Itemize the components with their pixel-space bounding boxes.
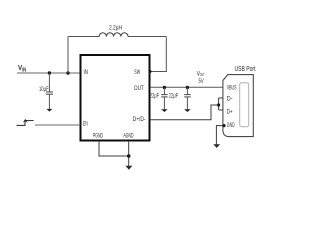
svg-text:D+/D-: D+/D- (133, 116, 146, 123)
svg-text:5V: 5V (199, 78, 205, 85)
ground (C2) (161, 109, 168, 112)
node junction D wire T (217, 103, 220, 106)
ground (USB) (213, 144, 220, 148)
svg-text:GND: GND (227, 122, 235, 129)
ground (C1) (46, 109, 52, 112)
svg-text:VBUS: VBUS (227, 84, 237, 91)
enable step signal symbol (17, 121, 34, 126)
capacitor C1 10uF (39, 73, 53, 109)
svg-text:USB Port: USB Port (235, 66, 256, 73)
wire top horizontal right (128, 36, 166, 38)
node SW pin dot (149, 70, 152, 73)
wire USB GND to ground (216, 126, 223, 145)
capacitor C2 22uF (150, 88, 168, 110)
svg-text:PGND: PGND (93, 133, 103, 140)
wire EN (35, 124, 80, 126)
wire D+/D- routing (150, 98, 224, 120)
inductor L1 2.2uH (99, 24, 128, 36)
wire OUT to VBUS (150, 86, 224, 88)
node D+ pin dot (222, 108, 225, 111)
node junction at C2 tap (163, 86, 166, 89)
svg-text:22µF: 22µF (150, 93, 160, 100)
node PGND/AGND junction (127, 154, 131, 158)
wire VIN to IC IN pin (17, 72, 80, 74)
svg-text:SW: SW (134, 69, 140, 76)
svg-text:IN: IN (84, 69, 89, 76)
node D- pin dot (222, 96, 225, 99)
svg-text:D-: D- (227, 96, 233, 103)
node junction at inductor left tap (66, 71, 69, 74)
node junction at C1 tap (48, 71, 51, 74)
ground (AGND) (125, 166, 132, 170)
op-amp U1 boost converter IC body (81, 55, 150, 141)
node GND pin dot (222, 124, 225, 127)
svg-text:2.2µH: 2.2µH (109, 24, 122, 31)
wire top horizontal left (68, 36, 99, 38)
svg-text:OUT: OUT (134, 85, 144, 92)
wire SW pin (150, 71, 167, 73)
wire right vertical to SW (165, 37, 167, 72)
wire AGND down (128, 141, 130, 167)
USB port connector J1 (223, 66, 256, 137)
wire PGND down and over (99, 141, 129, 156)
svg-text:AGND: AGND (124, 133, 134, 140)
svg-text:EN: EN (83, 120, 88, 127)
svg-text:D+: D+ (227, 109, 233, 116)
node VBUS pin dot (223, 85, 226, 88)
wire inductor left vertical (67, 37, 69, 74)
node VIN label (18, 63, 27, 74)
ground (C3) (184, 109, 191, 112)
node VOUT label (197, 70, 205, 85)
node junction at C3 tap (186, 86, 189, 89)
svg-text:22µF: 22µF (169, 93, 179, 100)
capacitor C3 22uF (169, 88, 191, 110)
